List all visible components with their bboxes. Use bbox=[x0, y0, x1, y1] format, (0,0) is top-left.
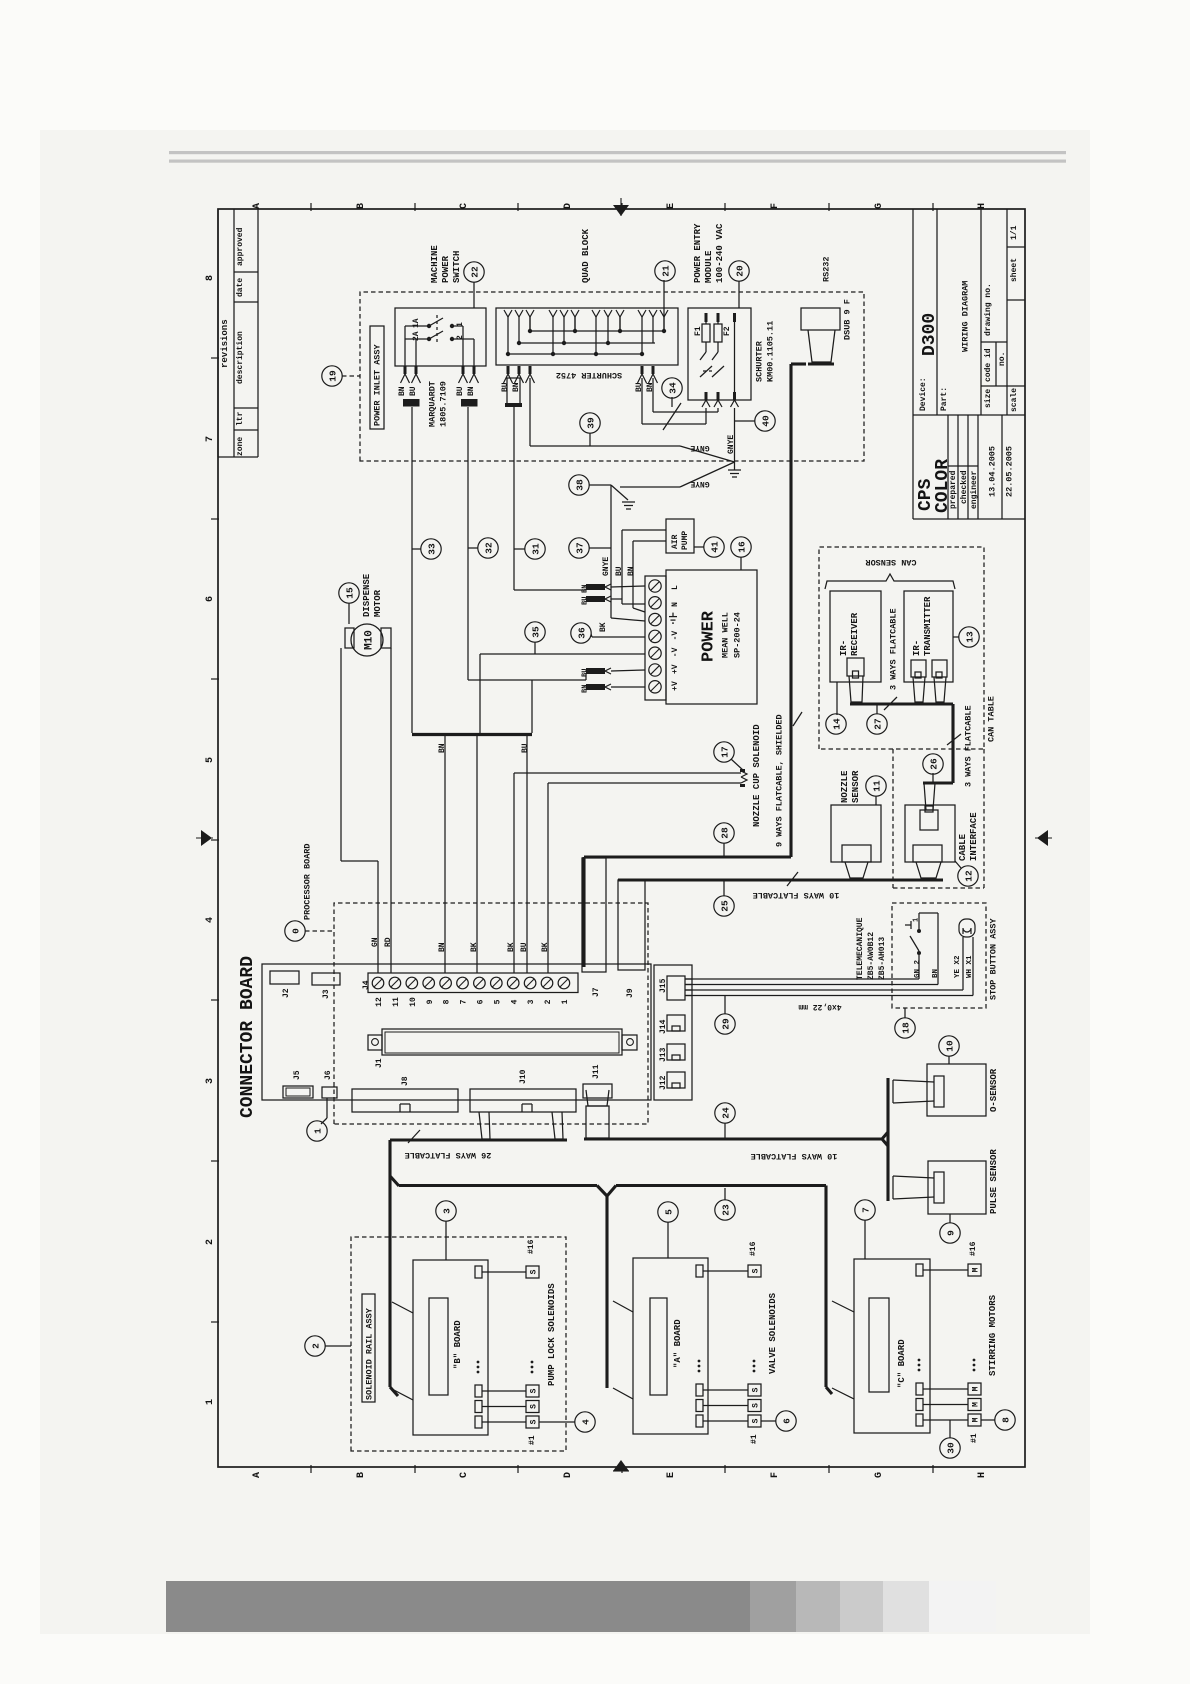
svg-text:GN 2: GN 2 bbox=[914, 959, 922, 978]
svg-text:BN: BN bbox=[582, 685, 590, 693]
plug pair AC into supply bbox=[582, 584, 646, 605]
svg-text:ZB5-AW0B12: ZB5-AW0B12 bbox=[867, 932, 876, 980]
svg-text:TRANSMITTER: TRANSMITTER bbox=[923, 596, 933, 656]
svg-text:GNYE: GNYE bbox=[690, 479, 709, 488]
svg-text:MARQUARDT: MARQUARDT bbox=[428, 381, 438, 427]
dispense motor M10 bbox=[345, 573, 391, 656]
can sensor enclosure bbox=[819, 547, 984, 749]
node 1 bbox=[307, 1098, 327, 1141]
node 5 bbox=[658, 1202, 678, 1258]
svg-text:CAN TABLE: CAN TABLE bbox=[987, 696, 997, 742]
power entry module switch contacts bbox=[700, 313, 739, 407]
connector J2 bbox=[270, 971, 299, 998]
svg-text:J13: J13 bbox=[659, 1047, 668, 1062]
svg-text:6: 6 bbox=[205, 596, 216, 602]
svg-text:7: 7 bbox=[460, 999, 469, 1004]
wire -V sense bbox=[480, 654, 645, 733]
svg-text:10 WAYS FLATCABLE: 10 WAYS FLATCABLE bbox=[751, 1151, 838, 1161]
processor board boundary bbox=[303, 843, 648, 1124]
wires bar to J4 bbox=[438, 736, 530, 973]
connector J8 bbox=[352, 1076, 458, 1112]
svg-text:YE X2: YE X2 bbox=[954, 955, 962, 978]
wire N from switch plug bbox=[468, 407, 586, 680]
svg-text:S: S bbox=[530, 1269, 539, 1274]
svg-text:J8: J8 bbox=[401, 1076, 410, 1086]
wire motor RD to J4 bbox=[384, 648, 393, 973]
node 37 bbox=[569, 538, 611, 558]
svg-text:BU: BU bbox=[501, 382, 510, 392]
J7 flatcable bus bbox=[584, 857, 791, 967]
node 26 bbox=[923, 754, 943, 783]
svg-text:PUMP LOCK SOLENOIDS: PUMP LOCK SOLENOIDS bbox=[547, 1283, 557, 1386]
node 4 bbox=[539, 1412, 595, 1432]
svg-text:B: B bbox=[356, 1472, 367, 1478]
svg-text:4: 4 bbox=[205, 917, 216, 923]
svg-text:40: 40 bbox=[761, 415, 772, 427]
svg-text:NOZZLE: NOZZLE bbox=[840, 770, 850, 803]
svg-text:A: A bbox=[252, 1472, 263, 1478]
svg-text:MODULE: MODULE bbox=[704, 250, 714, 283]
plug pair DC +V bbox=[582, 668, 646, 693]
svg-text:J10: J10 bbox=[519, 1069, 528, 1084]
node 12 bbox=[955, 861, 978, 886]
svg-text:G: G bbox=[874, 203, 885, 209]
svg-text:BN: BN bbox=[398, 386, 407, 396]
svg-text:code id: code id bbox=[984, 348, 993, 382]
svg-text:E: E bbox=[666, 203, 677, 209]
svg-text:+V: +V bbox=[671, 681, 680, 691]
svg-text:12: 12 bbox=[964, 870, 975, 882]
svg-text:8: 8 bbox=[205, 275, 216, 281]
can table enclosure bbox=[893, 696, 997, 888]
svg-text:0: 0 bbox=[291, 928, 302, 934]
power supply MEAN WELL SP-200-24 bbox=[645, 570, 757, 704]
connector J7 riser bbox=[582, 858, 606, 997]
machine power switch plug pins bbox=[398, 366, 478, 407]
svg-text:J4: J4 bbox=[362, 980, 371, 990]
svg-text:"A" BOARD: "A" BOARD bbox=[673, 1319, 683, 1368]
3 ways flatcable receiver bbox=[850, 608, 953, 710]
node 27 bbox=[867, 705, 887, 734]
svg-text:35: 35 bbox=[531, 626, 542, 638]
svg-text:41: 41 bbox=[710, 541, 721, 553]
svg-text:GNYE: GNYE bbox=[690, 443, 709, 452]
svg-text:#1: #1 bbox=[970, 1433, 979, 1443]
svg-text:PUMP: PUMP bbox=[681, 531, 690, 550]
svg-text:3: 3 bbox=[205, 1078, 216, 1084]
svg-text:37: 37 bbox=[575, 542, 586, 554]
wire GNYE lower bbox=[620, 462, 735, 488]
node 33 bbox=[412, 539, 441, 559]
wire quad block to power entry BU/BN bbox=[642, 378, 718, 430]
svg-text:SWITCH: SWITCH bbox=[452, 251, 462, 283]
10 ways flatcable to sensors bbox=[584, 1078, 888, 1201]
svg-text:9 WAYS FLATCABLE, SHIELDED: 9 WAYS FLATCABLE, SHIELDED bbox=[775, 714, 785, 847]
svg-text:GNYE: GNYE bbox=[602, 557, 611, 576]
svg-text:RECEIVER: RECEIVER bbox=[850, 612, 860, 656]
svg-text:J7: J7 bbox=[592, 987, 601, 997]
svg-text:2: 2 bbox=[544, 999, 553, 1004]
svg-text:9: 9 bbox=[946, 1230, 957, 1236]
wire L1 from switch plug bbox=[411, 407, 413, 733]
svg-text:PULSE SENSOR: PULSE SENSOR bbox=[989, 1149, 999, 1214]
quad block terminal strip SCHURTER 4752 bbox=[496, 228, 678, 379]
svg-text:J1: J1 bbox=[375, 1058, 384, 1068]
3 ways flatcable to can table bbox=[923, 704, 974, 787]
svg-text:WIRING DIAGRAM: WIRING DIAGRAM bbox=[961, 281, 971, 352]
A board bbox=[613, 1258, 708, 1434]
svg-text:#16: #16 bbox=[969, 1241, 978, 1256]
svg-text:KM00.1105.11: KM00.1105.11 bbox=[766, 321, 776, 382]
wire quad block earth GNYE bbox=[530, 378, 735, 462]
node 21 bbox=[655, 261, 675, 281]
node 32 bbox=[468, 538, 498, 558]
svg-text:26 WAYS FLATCABLE: 26 WAYS FLATCABLE bbox=[405, 1150, 492, 1160]
node 0 bbox=[285, 921, 334, 941]
svg-text:engineer: engineer bbox=[970, 470, 979, 509]
svg-text:BK: BK bbox=[507, 942, 516, 952]
svg-text:N: N bbox=[671, 602, 680, 607]
solenoid rail assy enclosure bbox=[351, 1237, 566, 1451]
node 36 bbox=[571, 623, 592, 643]
connector J5 bbox=[283, 1070, 313, 1098]
svg-text:J2: J2 bbox=[282, 988, 291, 998]
node 35 bbox=[525, 622, 545, 654]
revisions table bbox=[218, 209, 258, 457]
svg-text:BU: BU bbox=[456, 386, 465, 396]
svg-text:POWER INLET ASSY: POWER INLET ASSY bbox=[373, 343, 383, 426]
svg-text:15: 15 bbox=[345, 587, 356, 599]
machine power switch bbox=[395, 245, 486, 366]
svg-text:31: 31 bbox=[531, 543, 542, 555]
node 19 bbox=[322, 366, 360, 386]
svg-text:B: B bbox=[356, 203, 367, 209]
svg-text:4: 4 bbox=[510, 999, 519, 1004]
node 6 bbox=[761, 1411, 796, 1431]
svg-text:C: C bbox=[459, 203, 470, 209]
svg-text:3: 3 bbox=[442, 1208, 453, 1214]
svg-text:S: S bbox=[530, 1404, 539, 1409]
svg-text:SCHURTER 4752: SCHURTER 4752 bbox=[556, 370, 622, 380]
node 25 bbox=[714, 881, 734, 916]
power entry module 100-240 VAC bbox=[688, 223, 751, 400]
node 3 bbox=[436, 1201, 456, 1260]
svg-text:revisions: revisions bbox=[220, 319, 230, 368]
svg-text:J14: J14 bbox=[659, 1019, 668, 1034]
node 29 bbox=[715, 996, 735, 1034]
node 30 bbox=[940, 1420, 960, 1458]
svg-text:29: 29 bbox=[721, 1018, 732, 1030]
svg-text:Device:: Device: bbox=[919, 377, 928, 411]
node 34 bbox=[662, 378, 682, 407]
10 ways flatcable label sensors bbox=[217, 1466, 219, 1468]
svg-text:D: D bbox=[563, 1472, 574, 1478]
svg-text:"B" BOARD: "B" BOARD bbox=[453, 1320, 463, 1369]
svg-text:1: 1 bbox=[313, 1128, 324, 1134]
svg-text:J11: J11 bbox=[592, 1064, 601, 1079]
svg-text:6: 6 bbox=[477, 999, 486, 1004]
svg-text:#1: #1 bbox=[528, 1435, 537, 1445]
IR transmitter bbox=[904, 591, 953, 702]
svg-text:BK: BK bbox=[599, 622, 608, 632]
svg-text:5: 5 bbox=[493, 999, 502, 1004]
svg-text:5: 5 bbox=[664, 1209, 675, 1215]
svg-text:1: 1 bbox=[561, 999, 570, 1004]
svg-text:5: 5 bbox=[205, 757, 216, 763]
svg-text:13.04.2005: 13.04.2005 bbox=[988, 446, 998, 497]
svg-text:F: F bbox=[770, 1472, 781, 1478]
C board bbox=[832, 1259, 930, 1433]
svg-text:D: D bbox=[563, 203, 574, 209]
svg-text:RD: RD bbox=[384, 937, 393, 947]
svg-text:SP-200-24: SP-200-24 bbox=[733, 612, 743, 658]
svg-text:D300: D300 bbox=[920, 313, 940, 356]
svg-text:BN: BN bbox=[932, 969, 940, 978]
svg-text:WH X1: WH X1 bbox=[966, 955, 974, 978]
wire motor GN to J4 bbox=[341, 648, 380, 973]
svg-text:S: S bbox=[752, 1403, 761, 1408]
wire BK -V bbox=[592, 622, 645, 637]
svg-text:A: A bbox=[252, 203, 263, 209]
svg-text:approved: approved bbox=[236, 227, 245, 266]
svg-text:TELEMECANIQUE: TELEMECANIQUE bbox=[856, 917, 865, 980]
svg-text:23: 23 bbox=[721, 1204, 732, 1216]
svg-text:BK: BK bbox=[541, 942, 550, 952]
connector board outline bbox=[238, 956, 651, 1118]
26 ways flatcable bus bbox=[390, 1112, 616, 1396]
svg-text:AIR: AIR bbox=[671, 534, 680, 549]
svg-text:BN: BN bbox=[627, 566, 636, 576]
svg-text:10 WAYS FLATCABLE: 10 WAYS FLATCABLE bbox=[753, 890, 840, 900]
svg-text:S: S bbox=[530, 1388, 539, 1393]
svg-text:2: 2 bbox=[205, 1239, 216, 1245]
svg-text:8: 8 bbox=[1001, 1417, 1012, 1423]
svg-text:prepared: prepared bbox=[949, 470, 958, 509]
svg-text:7: 7 bbox=[205, 436, 216, 442]
svg-text:3 WAYS FLATCABLE: 3 WAYS FLATCABLE bbox=[889, 608, 899, 690]
svg-text:CAN SENSOR: CAN SENSOR bbox=[865, 557, 917, 567]
svg-text:16: 16 bbox=[737, 541, 748, 553]
svg-text:CONNECTOR BOARD: CONNECTOR BOARD bbox=[238, 956, 258, 1118]
svg-text:date: date bbox=[236, 278, 245, 297]
nozzle cup solenoid bbox=[507, 724, 762, 973]
svg-text:M: M bbox=[972, 1267, 981, 1272]
marquardt label bbox=[428, 381, 449, 427]
connector J3 bbox=[312, 973, 340, 999]
svg-text:38: 38 bbox=[575, 479, 586, 491]
svg-text:1/1: 1/1 bbox=[1010, 225, 1019, 240]
svg-text:zone: zone bbox=[236, 437, 245, 456]
10 ways flatcable to boards bbox=[607, 1151, 837, 1394]
stop button assy bbox=[856, 903, 998, 1008]
svg-text:L: L bbox=[671, 585, 680, 590]
svg-text:NOZZLE CUP SOLENOID: NOZZLE CUP SOLENOID bbox=[752, 724, 762, 827]
svg-text:J5: J5 bbox=[293, 1070, 302, 1080]
svg-text:28: 28 bbox=[720, 827, 731, 839]
svg-text:#16: #16 bbox=[749, 1241, 758, 1256]
svg-text:4: 4 bbox=[581, 1419, 592, 1425]
svg-text:+V: +V bbox=[671, 664, 680, 674]
svg-text:POWER ENTRY: POWER ENTRY bbox=[693, 223, 703, 283]
node 7 bbox=[855, 1200, 875, 1259]
O-sensor bbox=[893, 1064, 999, 1116]
svg-text:GNYE: GNYE bbox=[727, 435, 736, 454]
node 14 bbox=[826, 714, 846, 734]
svg-text:#16: #16 bbox=[527, 1239, 536, 1254]
ground symbol main earth bbox=[728, 462, 741, 477]
wires 4x0.22 J15 to stop button bbox=[685, 979, 973, 1011]
svg-text:25: 25 bbox=[720, 900, 731, 912]
svg-text:no.: no. bbox=[998, 352, 1007, 366]
svg-text:10: 10 bbox=[945, 1040, 956, 1052]
10 ways flatcable J9 bus bbox=[618, 872, 943, 900]
svg-text:BU: BU bbox=[635, 382, 644, 392]
node 41 bbox=[694, 537, 724, 557]
svg-text:18: 18 bbox=[901, 1022, 912, 1034]
svg-text:30: 30 bbox=[946, 1442, 957, 1454]
svg-text:M10: M10 bbox=[363, 630, 375, 650]
svg-text:E: E bbox=[666, 1472, 677, 1478]
svg-text:SCHURTER: SCHURTER bbox=[755, 340, 765, 382]
node 28 bbox=[714, 823, 734, 857]
air pump bbox=[666, 519, 694, 553]
svg-text:drawing no.: drawing no. bbox=[984, 283, 993, 336]
node 2 bbox=[305, 1336, 351, 1356]
svg-text:2: 2 bbox=[311, 1343, 322, 1349]
svg-text:12: 12 bbox=[375, 997, 384, 1007]
connector J10 bbox=[470, 1069, 576, 1112]
svg-text:32: 32 bbox=[484, 542, 495, 554]
node 15 bbox=[339, 583, 359, 624]
svg-text:13: 13 bbox=[965, 631, 976, 643]
svg-text:DSUB 9 F: DSUB 9 F bbox=[843, 299, 853, 340]
nozzle sensor bbox=[831, 770, 881, 878]
svg-text:34: 34 bbox=[668, 382, 679, 394]
svg-text:19: 19 bbox=[328, 370, 339, 382]
svg-text:F: F bbox=[770, 203, 781, 209]
svg-text:QUAD BLOCK: QUAD BLOCK bbox=[581, 228, 591, 283]
svg-text:BN: BN bbox=[438, 743, 447, 753]
svg-text:STIRRING MOTORS: STIRRING MOTORS bbox=[988, 1294, 998, 1376]
cable interface bbox=[905, 783, 979, 878]
svg-text:SENSOR: SENSOR bbox=[851, 770, 861, 803]
svg-text:VALVE SOLENOIDS: VALVE SOLENOIDS bbox=[768, 1292, 778, 1374]
svg-text:H: H bbox=[977, 203, 988, 209]
svg-text:J6: J6 bbox=[324, 1070, 333, 1080]
svg-text:PROCESSOR BOARD: PROCESSOR BOARD bbox=[303, 843, 313, 920]
node 40 bbox=[735, 411, 775, 431]
fuse F2 bbox=[714, 313, 732, 352]
svg-text:11: 11 bbox=[392, 997, 401, 1007]
svg-text:J12: J12 bbox=[659, 1075, 668, 1090]
power inlet assy enclosure bbox=[360, 292, 864, 461]
svg-text:sheet: sheet bbox=[1010, 258, 1019, 282]
B board bbox=[392, 1260, 488, 1435]
connector J1 bbox=[368, 1029, 637, 1068]
valve solenoids bbox=[696, 1241, 778, 1444]
svg-text:H: H bbox=[977, 1472, 988, 1478]
fuse F1 bbox=[694, 313, 710, 352]
svg-text:22: 22 bbox=[470, 266, 481, 278]
svg-text:14: 14 bbox=[832, 718, 843, 730]
node 31 bbox=[514, 539, 545, 559]
node 17 bbox=[714, 742, 744, 771]
connector J9 riser bbox=[618, 880, 645, 998]
svg-text:O-SENSOR: O-SENSOR bbox=[989, 1068, 999, 1112]
svg-text:ltr: ltr bbox=[236, 411, 245, 426]
9 ways flatcable shielded RS232 cable bbox=[775, 364, 834, 857]
svg-text:CABLE: CABLE bbox=[958, 833, 968, 861]
node 20 bbox=[729, 261, 749, 308]
svg-text:26: 26 bbox=[929, 758, 940, 770]
svg-text:BU: BU bbox=[520, 942, 529, 952]
svg-text:checked: checked bbox=[960, 470, 969, 504]
svg-text:IR-: IR- bbox=[839, 640, 849, 656]
node 13 bbox=[953, 627, 979, 647]
title block bbox=[913, 209, 1025, 519]
svg-text:11: 11 bbox=[872, 780, 883, 792]
svg-text:BN: BN bbox=[646, 382, 655, 392]
node 24 bbox=[715, 1103, 735, 1138]
svg-text:33: 33 bbox=[427, 543, 438, 555]
svg-text:GN: GN bbox=[371, 937, 380, 947]
stirring motors bbox=[916, 1241, 998, 1443]
J12-J15 connector block bbox=[654, 965, 692, 1100]
svg-text:21: 21 bbox=[661, 265, 672, 277]
power inlet assy label bbox=[370, 326, 384, 429]
svg-text:M: M bbox=[972, 1402, 981, 1407]
svg-text:1: 1 bbox=[205, 1399, 216, 1405]
svg-text:J15: J15 bbox=[659, 978, 668, 993]
node 22 bbox=[464, 262, 484, 308]
svg-text:39: 39 bbox=[586, 417, 597, 429]
IR receiver bbox=[830, 591, 881, 715]
svg-text:BU: BU bbox=[521, 743, 530, 753]
svg-text:BU: BU bbox=[409, 386, 418, 396]
svg-text:Part:: Part: bbox=[940, 387, 949, 411]
svg-text:MACHINE: MACHINE bbox=[430, 245, 440, 283]
svg-text:6: 6 bbox=[782, 1418, 793, 1424]
svg-text:BN: BN bbox=[438, 942, 447, 952]
node 16 bbox=[731, 537, 751, 570]
node 38 bbox=[569, 475, 628, 500]
svg-text:M: M bbox=[972, 1386, 981, 1391]
svg-text:M: M bbox=[972, 1417, 981, 1422]
wire BU drop bbox=[531, 680, 533, 733]
svg-text:BU: BU bbox=[582, 669, 590, 677]
svg-text:POWER: POWER bbox=[441, 255, 451, 283]
svg-text:IR-: IR- bbox=[912, 640, 922, 656]
node 9 bbox=[940, 1214, 960, 1243]
ground symbol chassis bbox=[622, 502, 635, 509]
svg-text:STOP BUTTON ASSY: STOP BUTTON ASSY bbox=[989, 917, 999, 1000]
svg-text:20: 20 bbox=[735, 265, 746, 277]
connector J6 bbox=[322, 1070, 337, 1098]
svg-text:7: 7 bbox=[861, 1207, 872, 1213]
svg-text:3: 3 bbox=[527, 999, 536, 1004]
svg-text:F2: F2 bbox=[723, 326, 732, 336]
svg-text:BU: BU bbox=[582, 597, 590, 605]
svg-text:36: 36 bbox=[577, 627, 588, 639]
svg-text:ZB5-AH013: ZB5-AH013 bbox=[878, 937, 887, 980]
svg-text:C: C bbox=[459, 1472, 470, 1478]
svg-text:-V: -V bbox=[671, 631, 680, 641]
svg-text:SOLENOID RAIL ASSY: SOLENOID RAIL ASSY bbox=[365, 1307, 375, 1400]
svg-text:27: 27 bbox=[873, 718, 884, 730]
connector J11 bbox=[583, 1064, 612, 1098]
svg-text:size: size bbox=[984, 389, 993, 408]
pulse sensor bbox=[893, 1149, 999, 1214]
